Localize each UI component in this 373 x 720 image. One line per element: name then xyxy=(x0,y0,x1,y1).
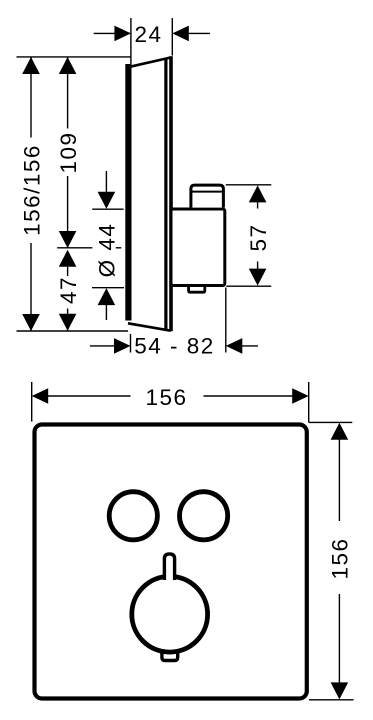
svg-text:57: 57 xyxy=(246,223,271,251)
svg-text:Ø 44: Ø 44 xyxy=(95,223,120,278)
svg-text:156: 156 xyxy=(327,537,352,579)
valve cap rim line xyxy=(192,191,223,193)
dimension 156/156 (overall height) xyxy=(19,57,44,331)
handle small circle left xyxy=(109,492,157,540)
thermostat bottom tab (front view) xyxy=(162,649,178,661)
dimension 156 vertical (plate height, front view) xyxy=(309,422,354,699)
wire: top extension line (left dims) xyxy=(17,56,131,58)
svg-text:109: 109 xyxy=(56,131,81,173)
svg-text:47: 47 xyxy=(56,276,81,304)
plate top edge xyxy=(128,58,171,68)
svg-text:24: 24 xyxy=(134,22,162,47)
wire: bottom extension line (left dims) xyxy=(17,330,129,332)
valve bottom tab (side view) xyxy=(189,287,205,292)
svg-text:54 - 82: 54 - 82 xyxy=(134,333,215,358)
dimension 57 (valve height) xyxy=(226,185,271,286)
plate side view xyxy=(125,56,173,331)
thermostat top tab (front view) xyxy=(164,554,174,580)
dimension 156 horizontal (plate width, front view) xyxy=(32,382,309,423)
plate back outer line xyxy=(169,56,173,331)
dimension 54 - 82 (installation depth range) xyxy=(90,288,258,359)
wall plate front view xyxy=(35,425,307,699)
dimension Ø44 (knob diameter) xyxy=(92,171,124,320)
thermostat big circle xyxy=(132,576,208,652)
dimension 24 (plate depth) xyxy=(94,18,210,66)
handle small circle right xyxy=(180,492,228,540)
plate front face xyxy=(125,64,131,321)
plate bottom edge xyxy=(128,323,171,330)
centerline tick of valve xyxy=(57,247,92,249)
svg-text:156/156: 156/156 xyxy=(19,144,44,236)
valve body xyxy=(171,209,225,286)
valve cap xyxy=(191,185,224,208)
plate back inner line xyxy=(164,58,167,330)
dimension 109 (top to valve centerline) xyxy=(56,57,81,248)
dimension 47 (valve centerline to bottom) xyxy=(56,250,81,331)
svg-text:156: 156 xyxy=(145,385,187,410)
